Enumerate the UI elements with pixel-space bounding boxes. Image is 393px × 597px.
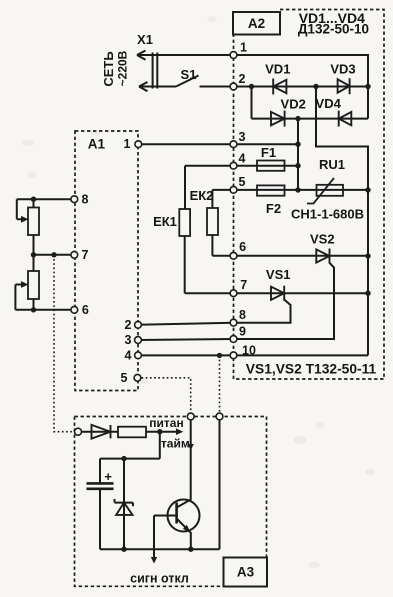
svg-text:+: + [104,469,112,484]
svg-text:VS1: VS1 [266,267,291,282]
svg-text:VD1: VD1 [265,62,290,77]
svg-text:А1: А1 [88,137,106,152]
svg-text:5: 5 [121,371,128,385]
svg-text:4: 4 [125,349,132,363]
svg-text:2: 2 [239,72,246,86]
svg-text:ЕК2: ЕК2 [190,188,214,203]
svg-text:6: 6 [82,303,89,317]
svg-text:сигн откл: сигн откл [130,571,189,585]
svg-text:А3: А3 [237,565,255,580]
svg-text:VD3: VD3 [330,61,355,76]
svg-text:7: 7 [82,248,89,262]
svg-text:S1: S1 [181,67,197,82]
svg-text:1: 1 [124,137,131,151]
svg-text:тайм.: тайм. [161,437,193,451]
svg-text:5: 5 [239,175,246,189]
svg-text:питан: питан [149,416,183,430]
svg-text:СН1-1-680В: СН1-1-680В [291,206,364,221]
svg-text:А2: А2 [248,16,265,31]
svg-text:СЕТЬ: СЕТЬ [101,51,116,86]
svg-text:F2: F2 [266,201,281,216]
svg-text:3: 3 [239,130,246,144]
svg-text:RU1: RU1 [319,157,345,172]
svg-text:VS2: VS2 [310,232,335,247]
svg-text:VD2: VD2 [281,96,306,111]
svg-text:ЕК1: ЕК1 [153,214,177,229]
svg-text:VD4: VD4 [316,96,342,111]
svg-text:8: 8 [239,308,246,322]
svg-text:9: 9 [239,325,246,339]
svg-text:X1: X1 [137,32,153,47]
svg-text:VS1,VS2 Т132-50-11: VS1,VS2 Т132-50-11 [246,362,377,377]
svg-text:7: 7 [240,278,247,292]
svg-text:6: 6 [239,240,246,254]
svg-text:F1: F1 [261,145,276,160]
svg-text:10: 10 [242,343,256,357]
svg-text:~220В: ~220В [116,50,130,86]
svg-text:1: 1 [240,41,247,55]
svg-text:2: 2 [125,318,132,332]
svg-text:4: 4 [239,152,246,166]
svg-text:Д132-50-10: Д132-50-10 [298,21,369,36]
svg-text:8: 8 [82,193,89,207]
svg-text:3: 3 [125,333,132,347]
